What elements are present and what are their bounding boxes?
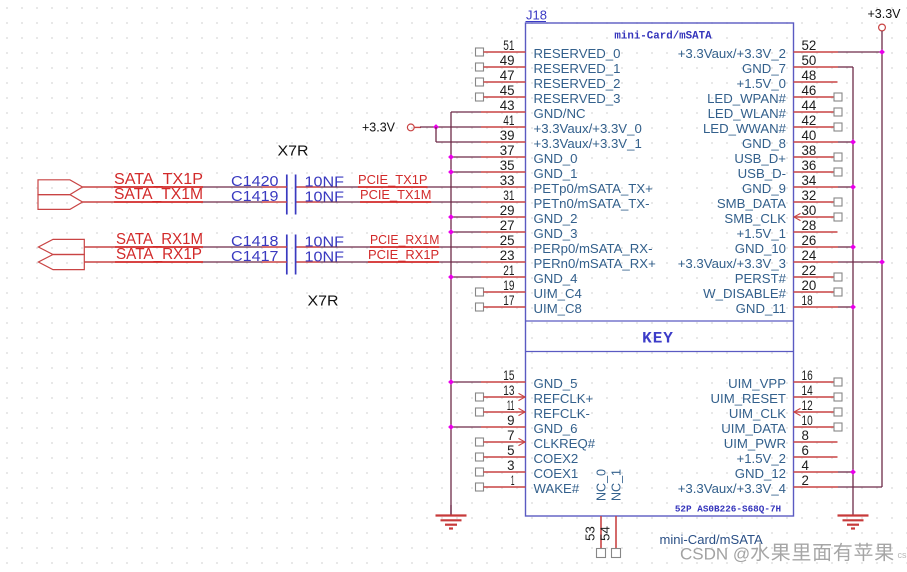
- svg-text:43: 43: [500, 98, 515, 113]
- svg-text:+1.5V_2: +1.5V_2: [737, 451, 787, 466]
- svg-text:GND_4: GND_4: [534, 271, 578, 286]
- power +3.3V (top right): [867, 7, 901, 31]
- pin 16 UIM_VPP: [728, 368, 842, 391]
- wire +3.3V branch to pin 39: [436, 141, 481, 143]
- svg-text:X7R: X7R: [308, 293, 339, 310]
- svg-text:4: 4: [802, 458, 810, 473]
- svg-text:USB_D-: USB_D-: [738, 166, 786, 181]
- svg-text:SMB_DATA: SMB_DATA: [717, 196, 786, 211]
- pin 49 RESERVED_1: [476, 53, 621, 76]
- pin 5 COEX2: [476, 443, 579, 466]
- pin 22 PERST#: [735, 263, 842, 286]
- wire GND branch y=382: [451, 381, 481, 383]
- pin 34 GND_9: [742, 173, 838, 196]
- pin 35 GND_1: [481, 158, 577, 181]
- svg-text:PCIE_TX1P: PCIE_TX1P: [358, 172, 428, 187]
- pin 26 GND_10: [735, 233, 838, 256]
- svg-text:37: 37: [500, 143, 515, 158]
- pin 19 UIM_C4: [476, 278, 582, 301]
- svg-text:27: 27: [500, 218, 515, 233]
- svg-text:38: 38: [802, 143, 817, 158]
- pin 52 +3.3Vaux/+3.3V_2: [678, 38, 838, 61]
- svg-text:45: 45: [500, 83, 515, 98]
- svg-text:GND_5: GND_5: [534, 376, 578, 391]
- svg-text:54: 54: [598, 526, 613, 541]
- wire GND branch y=157: [451, 156, 481, 158]
- wire GND bus left vertical: [450, 112, 452, 516]
- pin 24 +3.3Vaux/+3.3V_3: [678, 248, 838, 271]
- wire pin40 to GND bus: [838, 141, 853, 143]
- pin 40 GND_8: [742, 128, 838, 151]
- svg-text:GND/NC: GND/NC: [534, 106, 586, 121]
- svg-text:GND_12: GND_12: [735, 466, 786, 481]
- junction GND bus y=382: [448, 379, 454, 385]
- pin 32 SMB_DATA: [717, 188, 842, 211]
- svg-text:REFCLK-: REFCLK-: [534, 406, 590, 421]
- svg-text:UIM_DATA: UIM_DATA: [721, 421, 786, 436]
- svg-text:52P AS0B226-S68Q-7H: 52P AS0B226-S68Q-7H: [675, 505, 781, 515]
- svg-text:USB_D+: USB_D+: [734, 151, 786, 166]
- pin 21 GND_4: [481, 263, 577, 286]
- pin 8 UIM_PWR: [724, 428, 838, 451]
- svg-text:25: 25: [500, 233, 515, 248]
- wire SATA_RX1P from port: [84, 261, 286, 263]
- svg-text:28: 28: [802, 218, 817, 233]
- wire cap row y=262 right side: [296, 261, 481, 263]
- junction GND bus y=277: [448, 274, 454, 280]
- pin 6 +1.5V_2: [737, 443, 838, 466]
- svg-text:44: 44: [802, 98, 817, 113]
- pin 28 +1.5V_1: [737, 218, 838, 241]
- pin 13 REFCLK+: [476, 383, 594, 406]
- svg-text:36: 36: [802, 158, 817, 173]
- svg-text:PCIE_RX1M: PCIE_RX1M: [370, 232, 439, 247]
- svg-text:9: 9: [507, 413, 514, 428]
- pin 46 LED_WPAN#: [707, 83, 842, 106]
- svg-text:24: 24: [802, 248, 817, 263]
- pin 33 PETp0/mSATA_TX+: [481, 173, 653, 196]
- svg-text:5: 5: [507, 443, 514, 458]
- svg-text:KEY: KEY: [642, 330, 674, 348]
- svg-text:X7R: X7R: [278, 143, 309, 160]
- wire SATA_RX1M from port: [84, 246, 286, 248]
- svg-text:10NF: 10NF: [305, 249, 345, 266]
- junction GND bus right y=187: [850, 184, 856, 190]
- svg-text:COEX1: COEX1: [534, 466, 579, 481]
- svg-text:53: 53: [583, 526, 598, 541]
- pin 39 +3.3Vaux/+3.3V_1: [481, 128, 642, 151]
- wire pin18 to GND bus: [838, 306, 853, 308]
- wire GND branch y=427: [451, 426, 481, 428]
- wire GND bus right vertical: [852, 67, 854, 516]
- svg-text:52: 52: [802, 38, 817, 53]
- wire cap row y=187 right side: [296, 186, 481, 188]
- svg-text:13: 13: [503, 383, 514, 398]
- svg-text:35: 35: [500, 158, 515, 173]
- svg-text:UIM_C4: UIM_C4: [534, 286, 582, 301]
- svg-text:GND_6: GND_6: [534, 421, 578, 436]
- wire pin2 to +3.3V bus: [838, 486, 882, 488]
- svg-text:51: 51: [503, 38, 514, 53]
- svg-text:+3.3Vaux/+3.3V_3: +3.3Vaux/+3.3V_3: [678, 256, 786, 271]
- pin 51 RESERVED_0: [476, 38, 621, 61]
- pin 14 UIM_RESET: [711, 383, 842, 406]
- junction GND bus right y=247: [850, 244, 856, 250]
- svg-text:30: 30: [802, 203, 817, 218]
- svg-text:CLKREQ#: CLKREQ#: [534, 436, 596, 451]
- watermark CSDN: [680, 543, 907, 564]
- wire +3.3V branch down to pin 39 row: [435, 127, 437, 142]
- pin 31 PETn0/mSATA_TX-: [481, 188, 650, 211]
- svg-text:PETp0/mSATA_TX+: PETp0/mSATA_TX+: [534, 181, 654, 196]
- svg-text:cs: cs: [898, 550, 907, 560]
- svg-text:49: 49: [500, 53, 515, 68]
- svg-text:31: 31: [503, 188, 514, 203]
- svg-text:1: 1: [511, 473, 515, 488]
- pin 43 GND/NC: [481, 98, 586, 121]
- wire pin4 to GND bus: [838, 471, 853, 473]
- pin 41 +3.3Vaux/+3.3V_0: [481, 113, 642, 136]
- svg-text:46: 46: [802, 83, 817, 98]
- svg-text:10: 10: [802, 413, 813, 428]
- svg-text:SMB_CLK: SMB_CLK: [724, 211, 786, 226]
- svg-text:11: 11: [507, 398, 515, 413]
- ground (left): [436, 505, 467, 529]
- capacitor C1420: [231, 173, 344, 215]
- svg-text:WAKE#: WAKE#: [534, 481, 580, 496]
- svg-text:19: 19: [503, 278, 514, 293]
- wire SATA_TX1P from port: [83, 186, 287, 188]
- pin 15 GND_5: [481, 368, 577, 391]
- svg-text:PERST#: PERST#: [735, 271, 787, 286]
- svg-text:J18: J18: [526, 8, 547, 23]
- svg-text:UIM_C8: UIM_C8: [534, 301, 582, 316]
- wire pin52 to +3.3V bus: [838, 51, 882, 53]
- pin 37 GND_0: [481, 143, 577, 166]
- svg-text:15: 15: [503, 368, 514, 383]
- svg-text:10NF: 10NF: [305, 189, 345, 206]
- port SATA_TX (output): [38, 180, 83, 210]
- svg-text:26: 26: [802, 233, 817, 248]
- svg-text:GND_2: GND_2: [534, 211, 578, 226]
- pin 23 PERn0/mSATA_RX+: [481, 248, 656, 271]
- svg-text:29: 29: [500, 203, 515, 218]
- pin 45 RESERVED_3: [476, 83, 621, 106]
- junction GND bus right y=472: [850, 469, 856, 475]
- svg-text:+3.3V: +3.3V: [362, 121, 396, 135]
- svg-text:LED_WWAN#: LED_WWAN#: [703, 121, 787, 136]
- svg-text:3: 3: [507, 458, 514, 473]
- svg-text:RESERVED_3: RESERVED_3: [534, 91, 621, 106]
- junction GND bus right y=142: [850, 139, 856, 145]
- wire GND branch y=277: [451, 276, 481, 278]
- pin 27 GND_3: [481, 218, 577, 241]
- svg-text:40: 40: [802, 128, 817, 143]
- svg-text:47: 47: [500, 68, 515, 83]
- pin 7 CLKREQ#: [476, 428, 596, 451]
- svg-text:UIM_VPP: UIM_VPP: [728, 376, 786, 391]
- svg-text:PETn0/mSATA_TX-: PETn0/mSATA_TX-: [534, 196, 650, 211]
- svg-text:UIM_RESET: UIM_RESET: [711, 391, 786, 406]
- KEY section divider bottom: [526, 351, 794, 353]
- pin 30 SMB_CLK: [724, 203, 842, 226]
- svg-text:8: 8: [802, 428, 809, 443]
- svg-text:32: 32: [802, 188, 817, 203]
- pin 53 NC_0: [583, 469, 609, 558]
- svg-text:2: 2: [802, 473, 809, 488]
- capacitor C1418: [231, 233, 344, 275]
- svg-text:17: 17: [503, 293, 514, 308]
- pin 42 LED_WWAN#: [703, 113, 842, 136]
- svg-text:41: 41: [503, 113, 514, 128]
- svg-text:RESERVED_1: RESERVED_1: [534, 61, 621, 76]
- svg-text:+3.3Vaux/+3.3V_4: +3.3Vaux/+3.3V_4: [678, 481, 786, 496]
- svg-text:+3.3Vaux/+3.3V_1: +3.3Vaux/+3.3V_1: [534, 136, 642, 151]
- ground (right): [838, 514, 869, 516]
- svg-text:NC_0: NC_0: [595, 469, 609, 501]
- svg-text:+1.5V_1: +1.5V_1: [737, 226, 787, 241]
- pin 2 +3.3Vaux/+3.3V_4: [678, 473, 838, 496]
- svg-text:UIM_CLK: UIM_CLK: [729, 406, 786, 421]
- pin 11 REFCLK-: [476, 398, 590, 421]
- svg-text:6: 6: [802, 443, 809, 458]
- svg-text:20: 20: [802, 278, 817, 293]
- svg-text:PERn0/mSATA_RX+: PERn0/mSATA_RX+: [534, 256, 657, 271]
- svg-text:PCIE_TX1M: PCIE_TX1M: [360, 187, 431, 202]
- junction +3.3V bus row 24: [879, 259, 885, 265]
- pin 1 WAKE#: [476, 473, 580, 496]
- svg-text:39: 39: [500, 128, 515, 143]
- svg-text:GND_10: GND_10: [735, 241, 786, 256]
- pin 3 COEX1: [476, 458, 579, 481]
- svg-text:mini-Card/mSATA: mini-Card/mSATA: [614, 31, 712, 43]
- pin 20 W_DISABLE#: [703, 278, 842, 301]
- wire pin24 to +3.3V bus: [838, 261, 882, 263]
- svg-text:GND_0: GND_0: [534, 151, 578, 166]
- svg-text:+3.3Vaux/+3.3V_2: +3.3Vaux/+3.3V_2: [678, 46, 786, 61]
- pin 29 GND_2: [481, 203, 577, 226]
- svg-text:42: 42: [802, 113, 817, 128]
- svg-text:CSDN @: CSDN @: [680, 545, 750, 564]
- svg-text:48: 48: [802, 68, 817, 83]
- pin 38 USB_D+: [734, 143, 842, 166]
- wire cap row y=202 right side: [296, 201, 481, 203]
- svg-text:SATA_RX1P: SATA_RX1P: [116, 246, 202, 263]
- pin 48 +1.5V_0: [737, 68, 838, 91]
- pin 9 GND_6: [481, 413, 577, 436]
- wire pin34 to GND bus: [838, 186, 853, 188]
- junction GND bus right y=307: [850, 304, 856, 310]
- capacitor C1417: [231, 248, 344, 266]
- svg-text:34: 34: [802, 173, 817, 188]
- wire SATA_TX1M from port: [83, 201, 287, 203]
- wire pin26 to GND bus: [838, 246, 853, 248]
- pin 17 UIM_C8: [476, 293, 582, 316]
- connector J18 body: [526, 23, 794, 516]
- wire cap row y=247 right side: [296, 246, 481, 248]
- junction +3.3V branch: [433, 124, 439, 130]
- svg-text:+3.3V: +3.3V: [867, 7, 901, 21]
- junction GND bus y=172: [448, 169, 454, 175]
- svg-text:+3.3Vaux/+3.3V_0: +3.3Vaux/+3.3V_0: [534, 121, 642, 136]
- pin 54 NC_1: [598, 469, 624, 558]
- junction GND bus y=217: [448, 214, 454, 220]
- svg-text:GND_3: GND_3: [534, 226, 578, 241]
- svg-text:16: 16: [802, 368, 813, 383]
- svg-text:+1.5V_0: +1.5V_0: [737, 76, 787, 91]
- svg-text:LED_WPAN#: LED_WPAN#: [707, 91, 787, 106]
- pin 25 PERp0/mSATA_RX-: [481, 233, 652, 256]
- svg-text:COEX2: COEX2: [534, 451, 579, 466]
- svg-text:NC_1: NC_1: [610, 469, 624, 501]
- junction GND bus y=427: [448, 424, 454, 430]
- svg-text:GND_9: GND_9: [742, 181, 786, 196]
- junction +3.3V bus row 52: [879, 49, 885, 55]
- svg-text:21: 21: [503, 263, 514, 278]
- junction GND bus y=232: [448, 229, 454, 235]
- pin 50 GND_7: [742, 53, 838, 76]
- svg-text:7: 7: [507, 428, 514, 443]
- svg-text:RESERVED_0: RESERVED_0: [534, 46, 621, 61]
- wire GND branch y=172: [451, 171, 481, 173]
- svg-text:18: 18: [802, 293, 813, 308]
- pin 36 USB_D-: [738, 158, 842, 181]
- svg-text:GND_7: GND_7: [742, 61, 786, 76]
- capacitor C1419: [231, 188, 344, 206]
- svg-text:GND_1: GND_1: [534, 166, 578, 181]
- svg-text:22: 22: [802, 263, 817, 278]
- wire GND branch y=232: [451, 231, 481, 233]
- svg-text:W_DISABLE#: W_DISABLE#: [703, 286, 786, 301]
- power +3.3V (left): [362, 121, 421, 135]
- wire +3.3V bus right vertical: [881, 31, 883, 487]
- pin 44 LED_WLAN#: [708, 98, 842, 121]
- pin 18 GND_11: [736, 293, 838, 316]
- pin 10 UIM_DATA: [721, 413, 842, 436]
- svg-text:PERp0/mSATA_RX-: PERp0/mSATA_RX-: [534, 241, 653, 256]
- svg-text:PCIE_RX1P: PCIE_RX1P: [368, 247, 439, 262]
- svg-text:GND_11: GND_11: [736, 301, 786, 316]
- svg-text:SATA_TX1M: SATA_TX1M: [114, 186, 203, 203]
- reference designator J18: [526, 8, 547, 23]
- svg-text:RESERVED_2: RESERVED_2: [534, 76, 621, 91]
- junction GND bus y=157: [448, 154, 454, 160]
- svg-text:LED_WLAN#: LED_WLAN#: [708, 106, 787, 121]
- svg-text:23: 23: [500, 248, 515, 263]
- wire +3.3V to pin 41: [420, 126, 481, 128]
- pin 12 UIM_CLK: [729, 398, 842, 421]
- svg-text:33: 33: [500, 173, 515, 188]
- pin 47 RESERVED_2: [476, 68, 621, 91]
- wire pin43 GND/NC to bus: [451, 111, 481, 113]
- wire pin50 GND_7 to bus: [838, 66, 853, 68]
- KEY section divider top: [526, 320, 794, 322]
- svg-text:GND_8: GND_8: [742, 136, 786, 151]
- svg-text:14: 14: [802, 383, 814, 398]
- wire GND branch y=217: [451, 216, 481, 218]
- svg-text:50: 50: [802, 53, 817, 68]
- svg-text:UIM_PWR: UIM_PWR: [724, 436, 786, 451]
- port SATA_RX (input): [38, 239, 84, 269]
- svg-text:12: 12: [802, 398, 813, 413]
- svg-text:REFCLK+: REFCLK+: [534, 391, 594, 406]
- pin 4 GND_12: [735, 458, 838, 481]
